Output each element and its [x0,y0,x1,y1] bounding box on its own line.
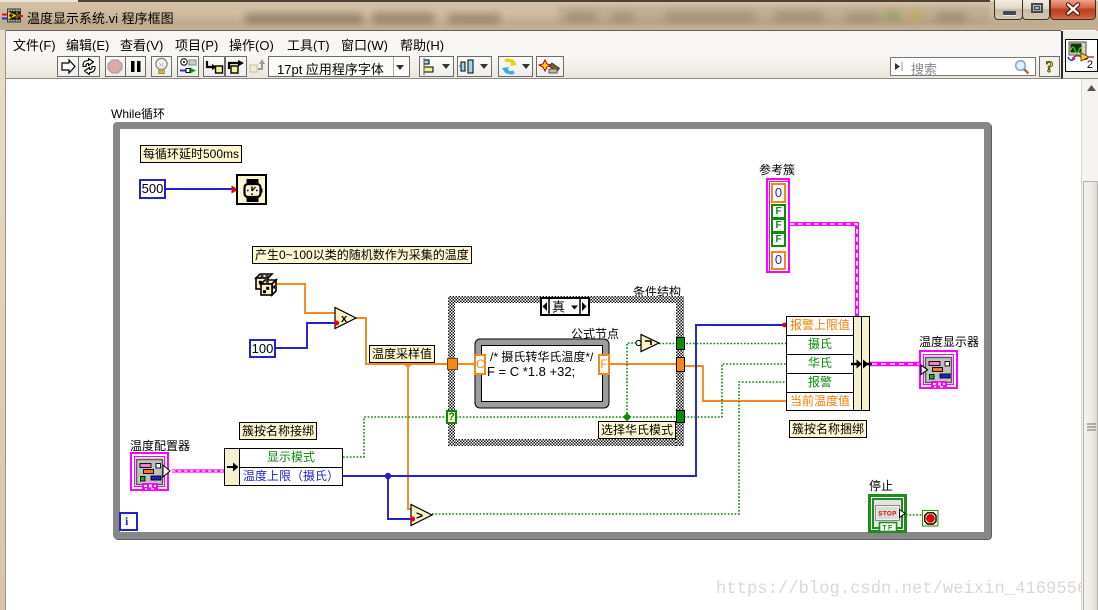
svg-text:TF: TF [882,525,894,532]
wire: orange inside case to C [455,363,475,365]
label: case structure [633,283,681,300]
wire: green selector across case interior [456,416,676,418]
unbundle by name node [224,448,240,486]
node: green junction diamond [623,413,631,421]
label: stop [869,477,893,494]
node: orange junction dot [404,360,411,367]
label: temperature display [919,333,979,350]
label: reference cluster [759,161,795,178]
multiply node [334,306,358,330]
wire: orange from right tunnel to bundle cell5 [684,366,787,401]
tunnel: green right bottom [676,410,685,423]
tunnel: green right top [676,337,685,350]
run continuously [78,56,100,77]
wire: blue 500 to timer [166,188,235,190]
resize dropdown [498,56,533,77]
control: stop button [868,494,914,534]
run [57,56,79,77]
NOT gate [634,333,664,353]
label: unbundle by name [239,422,317,440]
caption buttons [994,0,1023,20]
wire: green right tunnel to bundle cell3 [684,364,787,417]
wire: blue 100 to multiply [276,323,335,348]
bundle by name node [786,316,854,411]
title bar [0,0,1098,30]
node: blue junction dot [385,473,391,479]
wire: magenta config to unbundle [172,469,224,472]
label: sample value [369,345,435,363]
dice (random number) [253,271,279,297]
wire: blue unbundle row2 to bundle cell1 [343,325,787,476]
svg-text:>: > [416,509,423,523]
retain wire values [177,56,199,77]
step over [225,56,247,77]
wait ms timer U1 [236,174,267,205]
watermark [716,580,1096,599]
wire: green NOT output to bundle cell2 [659,343,787,345]
indicator: temperature display cluster [912,350,958,390]
lightbulb [151,56,172,77]
loop condition terminal [922,510,939,527]
numeric 0 bottom [771,251,786,270]
abort (disabled) [105,56,126,77]
label: random comment [252,246,472,264]
vertical scrollbar [1081,79,1098,610]
wire: orange dice to multiply [277,284,335,313]
tunnel: orange left [447,358,458,370]
distribute dropdown [457,56,492,77]
boolean F stack [771,204,786,247]
tunnel: orange right [676,357,685,372]
constant 100 [249,339,276,358]
wire: orange multiply to case tunnel [356,318,448,364]
wire: blue branch down to greater node [388,476,412,519]
formula output F [598,354,610,375]
label: bundle by name [789,420,867,438]
search box [890,57,1036,76]
case selector label [540,297,590,316]
svg-text:x: x [341,313,348,325]
wire: magenta reference cluster to bundle [790,224,857,316]
while loop [113,122,991,539]
formula node frame [474,338,610,409]
control: temperature configurator cluster [130,452,172,492]
iteration terminal i [119,512,138,531]
numeric 0 top [771,183,786,203]
align dropdown [419,56,454,77]
label: temperature configurator [130,437,190,454]
window side frames [0,30,6,610]
greater-than node [410,503,434,527]
label: select fahrenheit mode [598,421,676,439]
formula node text [490,348,593,365]
menu bar [6,30,1061,52]
labview app icon in title [2,8,28,24]
node: coercion red dots [232,186,239,194]
case selector ? terminal [446,410,457,424]
step out (disabled) [248,56,269,77]
wire: green stop to loop condition [906,514,923,516]
font selector [268,56,410,77]
wire: magenta bundle output to indicator [870,362,921,366]
step into [203,56,225,77]
constant 500 [139,179,166,199]
constant: reference cluster [766,178,790,273]
svg-text:STOP: STOP [878,511,896,518]
wire: green greater output to bundle cell4 [432,382,787,514]
pause [125,56,146,77]
label: formula node [571,325,619,342]
wire: green unbundle row1 up to case selector [343,417,448,457]
wire: green branch up to NOT gate [627,343,637,417]
reorder [536,56,564,77]
VI icon panel [1061,31,1098,79]
wire: orange F to right tunnel [610,363,677,365]
help button [1039,56,1060,77]
svg-text:真: 真 [552,300,565,315]
toolbar [6,52,1061,79]
label: delay comment [140,145,242,163]
formula input C [474,354,486,375]
while loop label [111,105,165,122]
wire: orange branch down to greater node [408,364,412,509]
bundle output arrows [851,358,875,372]
case structure border (checkered) [448,296,684,303]
